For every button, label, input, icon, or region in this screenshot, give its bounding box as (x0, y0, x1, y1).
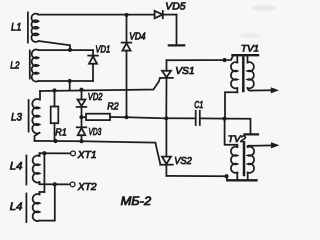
inductor L4 upper (26, 153, 39, 184)
inductor L3 (29, 91, 40, 141)
resistor R2 (82, 114, 127, 120)
node R1 top (52, 88, 56, 92)
terminal XT2 (70, 182, 75, 187)
svg-text:VD2: VD2 (88, 92, 103, 103)
wire net E (L3 bottom / gate VS2) (35, 141, 161, 165)
wire L2 top to VD1 (39, 49, 94, 51)
wire top bus L1 top to VD5 (39, 14, 155, 16)
svg-text:VD4: VD4 (129, 32, 146, 43)
svg-text:L2: L2 (10, 59, 19, 71)
wire L2 bottom to net D (69, 81, 71, 90)
wire C1 to node R (200, 117, 225, 119)
wire TV2 output arrow (249, 142, 279, 148)
diode VD4 (122, 15, 132, 117)
diode VD2 (77, 90, 87, 118)
svg-text:VS2: VS2 (174, 155, 192, 167)
wire net D (L3 top / gate VS1) (40, 78, 160, 91)
transformer TV1 (225, 55, 258, 118)
svg-text:XT1: XT1 (77, 149, 97, 161)
node TV2 left (224, 174, 228, 178)
svg-text:VS1: VS1 (175, 65, 194, 77)
node XT1 junction (42, 151, 46, 155)
node XT2 junction (53, 182, 57, 186)
node R1 bottom (53, 139, 57, 143)
terminal XT1 (71, 151, 76, 156)
svg-text:R1: R1 (55, 126, 67, 138)
ground chassis terminal mid (245, 133, 259, 135)
node VD4 bottom (124, 115, 128, 119)
resistor R1 (51, 91, 59, 142)
svg-text:L3: L3 (11, 112, 23, 124)
svg-text:VD1: VD1 (95, 44, 110, 55)
wire TV1 output arrow (250, 87, 279, 93)
svg-text:TV2: TV2 (228, 134, 247, 145)
svg-text:VD5: VD5 (165, 0, 185, 12)
wire bus VD4 to VS junction (127, 117, 167, 118)
node L1-L2 junction (68, 48, 72, 52)
diode VD3 (77, 117, 87, 141)
node VD4 top (124, 13, 128, 17)
svg-text:R2: R2 (107, 100, 119, 112)
thyristor VS2 (160, 118, 173, 176)
ground chassis terminal top (169, 44, 184, 46)
svg-text:XT2: XT2 (77, 181, 97, 193)
svg-text:МБ-2: МБ-2 (121, 196, 152, 208)
wire bus VS junction to C1 (166, 117, 195, 119)
node VD3 bottom (79, 139, 83, 143)
wire node R to chassis mid (225, 119, 251, 134)
svg-text:C1: C1 (194, 100, 203, 111)
svg-text:L4: L4 (10, 161, 23, 173)
wire VS1 to TV1 (167, 56, 234, 60)
inductor L1 (28, 13, 39, 43)
inductor L2 (30, 49, 39, 81)
svg-text:L4: L4 (10, 201, 23, 213)
wire XT1 line (40, 152, 71, 154)
node R right bus junction (223, 117, 227, 121)
node VS1-VS2 junction (164, 116, 168, 120)
capacitor C1 (196, 111, 200, 125)
wire VD5 to chassis (176, 15, 178, 45)
wire L4 upper top to L4 lower top (43, 153, 45, 192)
diode VD1 (88, 50, 98, 81)
node VD2-VD3 bus junction (79, 115, 83, 119)
thyristor VS1 (160, 60, 173, 118)
inductor L4 lower (26, 192, 39, 222)
diode VD5 (155, 11, 177, 18)
node L2 bottom junction (68, 79, 72, 83)
wire VS2 to TV2 (166, 175, 226, 177)
scan smudge top right (252, 5, 276, 11)
node TV1 left (223, 58, 227, 62)
wire XT2 line (40, 183, 71, 185)
node VD2 top (79, 88, 83, 92)
transformer TV2 (225, 119, 257, 181)
svg-text:L1: L1 (11, 22, 21, 34)
wire L4 lower bottom to XT2 (40, 184, 55, 220)
svg-text:TV1: TV1 (241, 43, 259, 54)
wire L1 bottom to L2 top junction (39, 41, 71, 50)
wire L2 bottom line (39, 80, 94, 82)
svg-text:VD3: VD3 (89, 127, 102, 138)
